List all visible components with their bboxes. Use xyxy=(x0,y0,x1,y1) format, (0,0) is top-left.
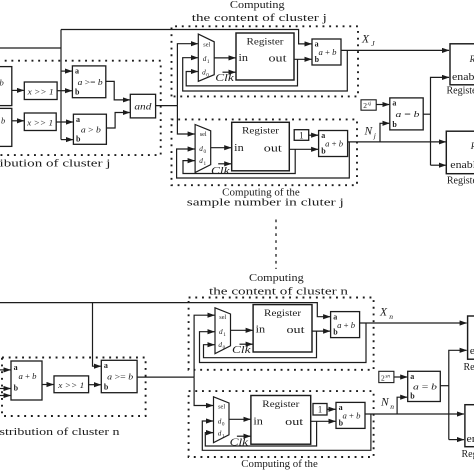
wire: S1 out to comparator U3 input b xyxy=(57,90,72,92)
svg-text:Register: Register xyxy=(462,449,474,460)
svg-text:Clk: Clk xyxy=(230,438,249,449)
wire: U5 out X_J net to register REG5 xyxy=(341,49,449,51)
svg-text:a: a xyxy=(76,115,80,124)
svg-text:sn: sn xyxy=(385,373,390,379)
wire: REG4 out feedback to M4 d1 xyxy=(205,421,316,446)
register REG4 xyxy=(251,396,311,445)
wire: S2 out to comparator U4 input a xyxy=(56,121,73,123)
comparator U4 (a > b) xyxy=(73,114,106,144)
svg-text:enable: enable xyxy=(467,434,474,445)
dotted box: computing content of cluster n xyxy=(189,298,374,370)
mux M3 (sel,d1,d0) xyxy=(215,308,231,354)
wire: U10 out X_n net to register REG7 xyxy=(360,322,467,324)
svg-text:sel: sel xyxy=(203,42,210,49)
clock stub Clk2 into REG2 xyxy=(211,164,231,177)
svg-text:and: and xyxy=(134,102,151,112)
wire: M2 out to register REG2 in xyxy=(211,147,232,149)
clock stub Clk4 into REG4 xyxy=(230,436,251,448)
register REG3 xyxy=(253,305,312,352)
wire: U7 out to enable net xyxy=(423,113,430,115)
svg-text:b: b xyxy=(76,134,81,143)
svg-text:1: 1 xyxy=(204,161,207,167)
svg-text:n: n xyxy=(390,402,394,411)
svg-text:enable: enable xyxy=(450,160,474,171)
svg-text:Computing of the: Computing of the xyxy=(222,187,300,198)
svg-text:a = b: a = b xyxy=(396,109,421,119)
register REG1 xyxy=(236,33,294,80)
svg-text:1: 1 xyxy=(318,405,323,415)
svg-text:Register: Register xyxy=(242,126,280,137)
svg-text:b: b xyxy=(1,116,5,126)
svg-text:a > b: a > b xyxy=(81,124,102,134)
vertical ellipsis between sections xyxy=(275,220,277,270)
wire: U1 out to shifter S1 xyxy=(12,89,24,91)
wire: N_n net to U12 input b xyxy=(397,397,407,414)
and gate G1 xyxy=(130,94,155,118)
wire: sel net to mux M1 xyxy=(177,44,197,106)
svg-text:in: in xyxy=(239,53,249,64)
wire: enable net to REG6 enable xyxy=(431,164,446,166)
dotted box: computing sample number in cluster n xyxy=(189,391,374,457)
svg-text:Clk: Clk xyxy=(211,166,230,177)
svg-text:0: 0 xyxy=(222,421,225,427)
adder U6 (a+b) xyxy=(319,131,348,157)
wire: K1 to adder U6 input a xyxy=(309,134,318,136)
svg-text:the content of cluster n: the content of cluster n xyxy=(209,287,348,298)
svg-text:a + b: a + b xyxy=(343,411,362,421)
svg-text:sample number in cluter j: sample number in cluter j xyxy=(187,198,344,209)
wire: REG2 out feedback to M2 d1 xyxy=(183,149,295,173)
wire: sel net to mux M2 xyxy=(177,106,194,134)
svg-text:1: 1 xyxy=(299,131,304,141)
svg-text:b: b xyxy=(75,88,80,97)
svg-text:a + b: a + b xyxy=(337,320,356,330)
svg-text:R: R xyxy=(469,54,474,64)
svg-text:x >> 1: x >> 1 xyxy=(26,119,53,128)
comparator U7 (a = b) xyxy=(390,98,423,130)
svg-text:Register: Register xyxy=(464,362,474,373)
svg-text:0: 0 xyxy=(204,149,207,155)
svg-text:sel: sel xyxy=(218,404,225,411)
comparator U3 (a >= b) xyxy=(72,66,105,98)
wire: enable net to REG8 enable xyxy=(449,439,464,441)
svg-text:1: 1 xyxy=(207,59,210,65)
wire: U3 out to and gate G1 xyxy=(106,81,130,100)
dotted box: distribution-of-cluster-n unit xyxy=(2,358,146,417)
adder U11 (a+b) xyxy=(336,402,365,428)
wire: REG1 out feedback to M1 d0 xyxy=(186,59,297,86)
svg-text:Computing: Computing xyxy=(249,273,305,284)
svg-text:a = b: a = b xyxy=(413,382,438,392)
register REG2 xyxy=(232,122,290,171)
register REG5 (X_J, cropped) xyxy=(450,44,474,85)
svg-text:X: X xyxy=(379,307,388,319)
shifter S1 (x >> 1) xyxy=(24,82,57,100)
wire: P2 to comparator U12 input a xyxy=(394,376,407,378)
svg-text:X: X xyxy=(361,34,370,46)
svg-text:0: 0 xyxy=(206,73,209,79)
wire: K2 to adder U11 input a xyxy=(327,408,336,410)
svg-text:Register: Register xyxy=(247,36,285,47)
wire: x_i vertical distribution branch xyxy=(60,30,62,140)
svg-text:stribution of cluster n: stribution of cluster n xyxy=(0,427,120,438)
svg-text:Register: Register xyxy=(447,85,474,96)
net label N_n xyxy=(380,397,394,411)
wire: U11 out feedback to M4 d0 xyxy=(202,414,371,450)
mux M1 (sel,d1,d0) xyxy=(198,34,214,81)
wire: U11 out N_n net to register REG8 xyxy=(365,413,464,415)
constant box K1 (1) xyxy=(294,130,309,141)
shifter S3 (x >> 1) xyxy=(54,376,89,393)
wire: x_i top rail to adder U5 input a xyxy=(61,30,312,44)
dotted box: computing content of cluster j xyxy=(172,26,359,96)
wire: input to U8 a xyxy=(0,369,11,371)
wire: REG3 out feedback to M3 d0 xyxy=(204,331,317,358)
svg-text:Computing of the: Computing of the xyxy=(241,459,318,470)
wire: N_j net to U7 input b xyxy=(380,123,389,141)
svg-text:ibution of cluster j: ibution of cluster j xyxy=(0,159,111,170)
svg-text:Clk: Clk xyxy=(232,345,251,356)
constant box K2 (1) xyxy=(313,404,327,416)
svg-text:b: b xyxy=(333,328,338,337)
svg-text:b: b xyxy=(410,392,415,401)
net label N_j xyxy=(364,126,376,140)
wire: M3 out to register REG3 in xyxy=(231,329,253,331)
register REG7 (X_n, cropped) xyxy=(468,316,474,359)
net label X_J xyxy=(361,34,375,48)
svg-text:a >= b: a >= b xyxy=(107,372,134,382)
svg-text:in: in xyxy=(234,143,244,154)
adder U2 (a+b, cropped at left) xyxy=(0,108,12,146)
svg-text:1: 1 xyxy=(223,332,226,338)
svg-text:N: N xyxy=(380,397,390,409)
dotted box: distribution-of-cluster-j unit xyxy=(0,61,161,155)
svg-text:b: b xyxy=(315,55,320,64)
svg-text:in: in xyxy=(256,325,266,336)
svg-text:in: in xyxy=(253,416,263,427)
wire: U5 out feedback to M1 d1 xyxy=(183,50,348,91)
wire: M4 out to register REG4 in xyxy=(229,418,250,420)
clock stub Clk1 into REG1 xyxy=(215,72,235,84)
svg-text:b: b xyxy=(339,418,344,427)
wire: U6 out N_j net to register REG6 xyxy=(348,141,446,143)
svg-text:a: a xyxy=(392,99,396,108)
svg-text:a: a xyxy=(104,361,108,370)
wire: sample input x_i (cluster n) to adder U10 input a xyxy=(0,303,330,317)
wire: U2 out to shifter S2 xyxy=(12,120,24,122)
constant box P2 (2^sn) xyxy=(379,371,394,382)
register REG8 (N_n, cropped) xyxy=(465,405,474,447)
wire: enable net to REG7 enable xyxy=(449,350,467,439)
svg-text:Register: Register xyxy=(262,399,300,410)
svg-text:b: b xyxy=(321,147,326,156)
wire: sel net to mux M4 xyxy=(194,377,213,405)
svg-text:sj: sj xyxy=(368,101,372,107)
wire: REG4 out to adder U11 input b xyxy=(311,420,336,422)
wire: x_i to comparator U3 input a xyxy=(61,70,72,72)
adder U5 (a+b) xyxy=(312,39,341,65)
shifter S2 (x >> 1) xyxy=(24,113,56,131)
svg-text:1: 1 xyxy=(222,433,225,439)
svg-text:a: a xyxy=(410,372,414,381)
constant box P1 (2^sj) xyxy=(361,100,376,110)
wire: REG3 out to adder U10 input b xyxy=(312,330,330,332)
adder U8 (a+b) xyxy=(11,361,42,400)
wire: enable net to REG5 enable xyxy=(431,77,450,165)
svg-text:N: N xyxy=(364,126,374,138)
clock stub Clk3 into REG3 xyxy=(232,344,253,356)
svg-text:a: a xyxy=(75,67,79,76)
svg-text:sel: sel xyxy=(200,131,207,138)
wire: U8 out to shifter S3 xyxy=(42,384,54,386)
svg-text:a + b: a + b xyxy=(319,47,338,57)
wire: REG2 out to adder U6 input b xyxy=(289,148,318,150)
svg-text:0: 0 xyxy=(223,345,226,351)
mux M2 (sel,d0,d1) xyxy=(195,125,211,173)
net label X_n xyxy=(379,307,393,321)
dotted box: computing sample number in cluster j xyxy=(172,119,358,185)
wire: G1 output (sel net) xyxy=(156,105,178,107)
comparator U12 (a = b) xyxy=(408,371,441,401)
svg-text:out: out xyxy=(269,53,287,64)
svg-text:b: b xyxy=(104,383,109,392)
svg-text:Register: Register xyxy=(264,308,302,319)
svg-text:a: a xyxy=(14,363,18,372)
wire: U12 out to enable net n xyxy=(440,385,449,387)
wire: U9 output (sel net n) xyxy=(137,376,194,378)
svg-text:enable: enable xyxy=(470,346,474,357)
svg-text:the content of cluster j: the content of cluster j xyxy=(192,13,327,24)
adder U1 (a+b, cropped at left) xyxy=(0,67,12,106)
adder U10 (a+b) xyxy=(331,312,360,338)
mux M4 (sel,d0,d1) xyxy=(214,397,230,443)
wire: REG1 out to adder U5 input b xyxy=(294,58,312,60)
svg-text:j: j xyxy=(373,131,376,140)
svg-text:Computing: Computing xyxy=(230,0,286,11)
svg-text:x >> 1: x >> 1 xyxy=(27,88,54,97)
wire: U10 out feedback to M3 d1 xyxy=(200,323,367,363)
svg-text:Register: Register xyxy=(447,175,474,186)
svg-text:n: n xyxy=(389,312,393,321)
svg-text:Clk: Clk xyxy=(215,73,234,84)
wire: U4 out to and gate G1 xyxy=(106,113,129,129)
svg-text:2: 2 xyxy=(363,101,367,110)
svg-text:R: R xyxy=(470,141,474,151)
svg-text:2: 2 xyxy=(381,373,385,382)
wire: P1 to comparator U7 input a xyxy=(376,104,389,106)
svg-text:a >= b: a >= b xyxy=(78,77,104,87)
svg-text:b: b xyxy=(0,78,4,88)
wire: x_i branch to comparator U9 input a xyxy=(93,303,101,367)
svg-text:out: out xyxy=(264,143,282,154)
svg-text:out: out xyxy=(287,325,305,336)
wire: S3 out to comparator U9 input b xyxy=(89,384,101,386)
svg-text:enable: enable xyxy=(452,72,474,83)
wire: x_i to comparator U4 input b xyxy=(61,139,73,141)
wire: M1 out to register REG1 in xyxy=(214,57,235,59)
svg-text:a + b: a + b xyxy=(325,139,344,149)
wire: input to U8 b xyxy=(0,388,11,390)
register REG6 (N_j, cropped) xyxy=(446,131,474,174)
wire: sel net to mux M3 xyxy=(194,315,214,377)
svg-text:x >> 1: x >> 1 xyxy=(57,381,84,390)
comparator U9 (a >= b) xyxy=(101,360,137,392)
svg-text:b: b xyxy=(392,120,397,129)
wire: U6 out feedback to M2 d0 xyxy=(177,142,350,178)
svg-text:a + b: a + b xyxy=(19,371,38,381)
svg-text:out: out xyxy=(285,417,303,428)
svg-text:sel: sel xyxy=(219,314,226,321)
wire: sample input x_i (cluster j) xyxy=(0,47,61,49)
svg-text:b: b xyxy=(14,384,19,393)
svg-text:J: J xyxy=(371,39,375,48)
wire: input to U8 (third) xyxy=(0,395,11,397)
